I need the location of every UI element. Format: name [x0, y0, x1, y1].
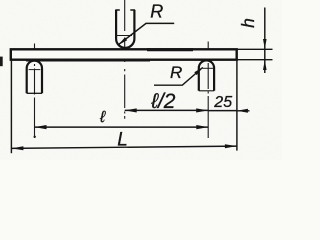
top roller top-edge ticks	[115, 9, 135, 11]
svg-text:h: h	[238, 18, 258, 28]
scan ink mark at left margin	[0, 57, 3, 67]
L right arrowhead	[225, 144, 237, 148]
l/2 right arrowhead (also serves 25 left outside arrow)	[196, 108, 208, 112]
left roller center cross dash	[29, 69, 41, 71]
h dimension line upper part	[264, 8, 266, 74]
top loading roller	[116, 10, 134, 48]
right roller center cross dash	[203, 67, 214, 69]
right support roller	[199, 60, 214, 90]
leader line for top R	[118, 23, 174, 44]
paper background	[0, 0, 282, 160]
centerline: right support axis	[207, 42, 209, 139]
svg-text:R: R	[170, 63, 182, 82]
extension line from beam right end down to L	[236, 60, 238, 151]
l/2 left arrowhead	[125, 108, 137, 112]
extension line from beam left end down to L	[10, 60, 12, 153]
dimension line l	[35, 126, 209, 128]
svg-text:ℓ/2: ℓ/2	[150, 90, 176, 113]
l right arrowhead	[196, 125, 208, 129]
svg-text:L: L	[117, 129, 128, 150]
25 right outside arrowhead (points left)	[237, 109, 248, 113]
dimension line L	[11, 146, 237, 148]
top roller center cross dash	[117, 35, 133, 37]
ink dot at end of left support centerline	[34, 136, 36, 138]
centerline: top loading roller axis	[124, 0, 126, 119]
left roller bottom edge	[27, 92, 42, 94]
leader line for right R	[154, 68, 203, 86]
h extension lines at beam right end	[237, 49, 273, 59]
beam specimen	[11, 49, 237, 59]
heavier ink smudge on beam top edge	[147, 48, 193, 51]
svg-text:25: 25	[213, 94, 232, 111]
arrowhead of right R leader	[194, 67, 203, 75]
left support roller	[27, 61, 42, 94]
right roller bottom edge	[199, 90, 214, 92]
dimension line 25 (with outside tail)	[208, 110, 249, 112]
svg-text:R: R	[150, 2, 163, 22]
svg-text:ℓ: ℓ	[99, 109, 106, 126]
h upper arrowhead (points down)	[263, 39, 267, 49]
centerline: left support axis	[34, 44, 36, 139]
heavier ink on beam bottom edge	[26, 59, 150, 62]
L left arrowhead	[11, 146, 23, 150]
dimension line l/2	[125, 109, 209, 111]
arrowhead of top R leader	[118, 37, 127, 45]
l left arrowhead	[35, 125, 47, 129]
h lower arrowhead (points up)	[263, 60, 267, 70]
